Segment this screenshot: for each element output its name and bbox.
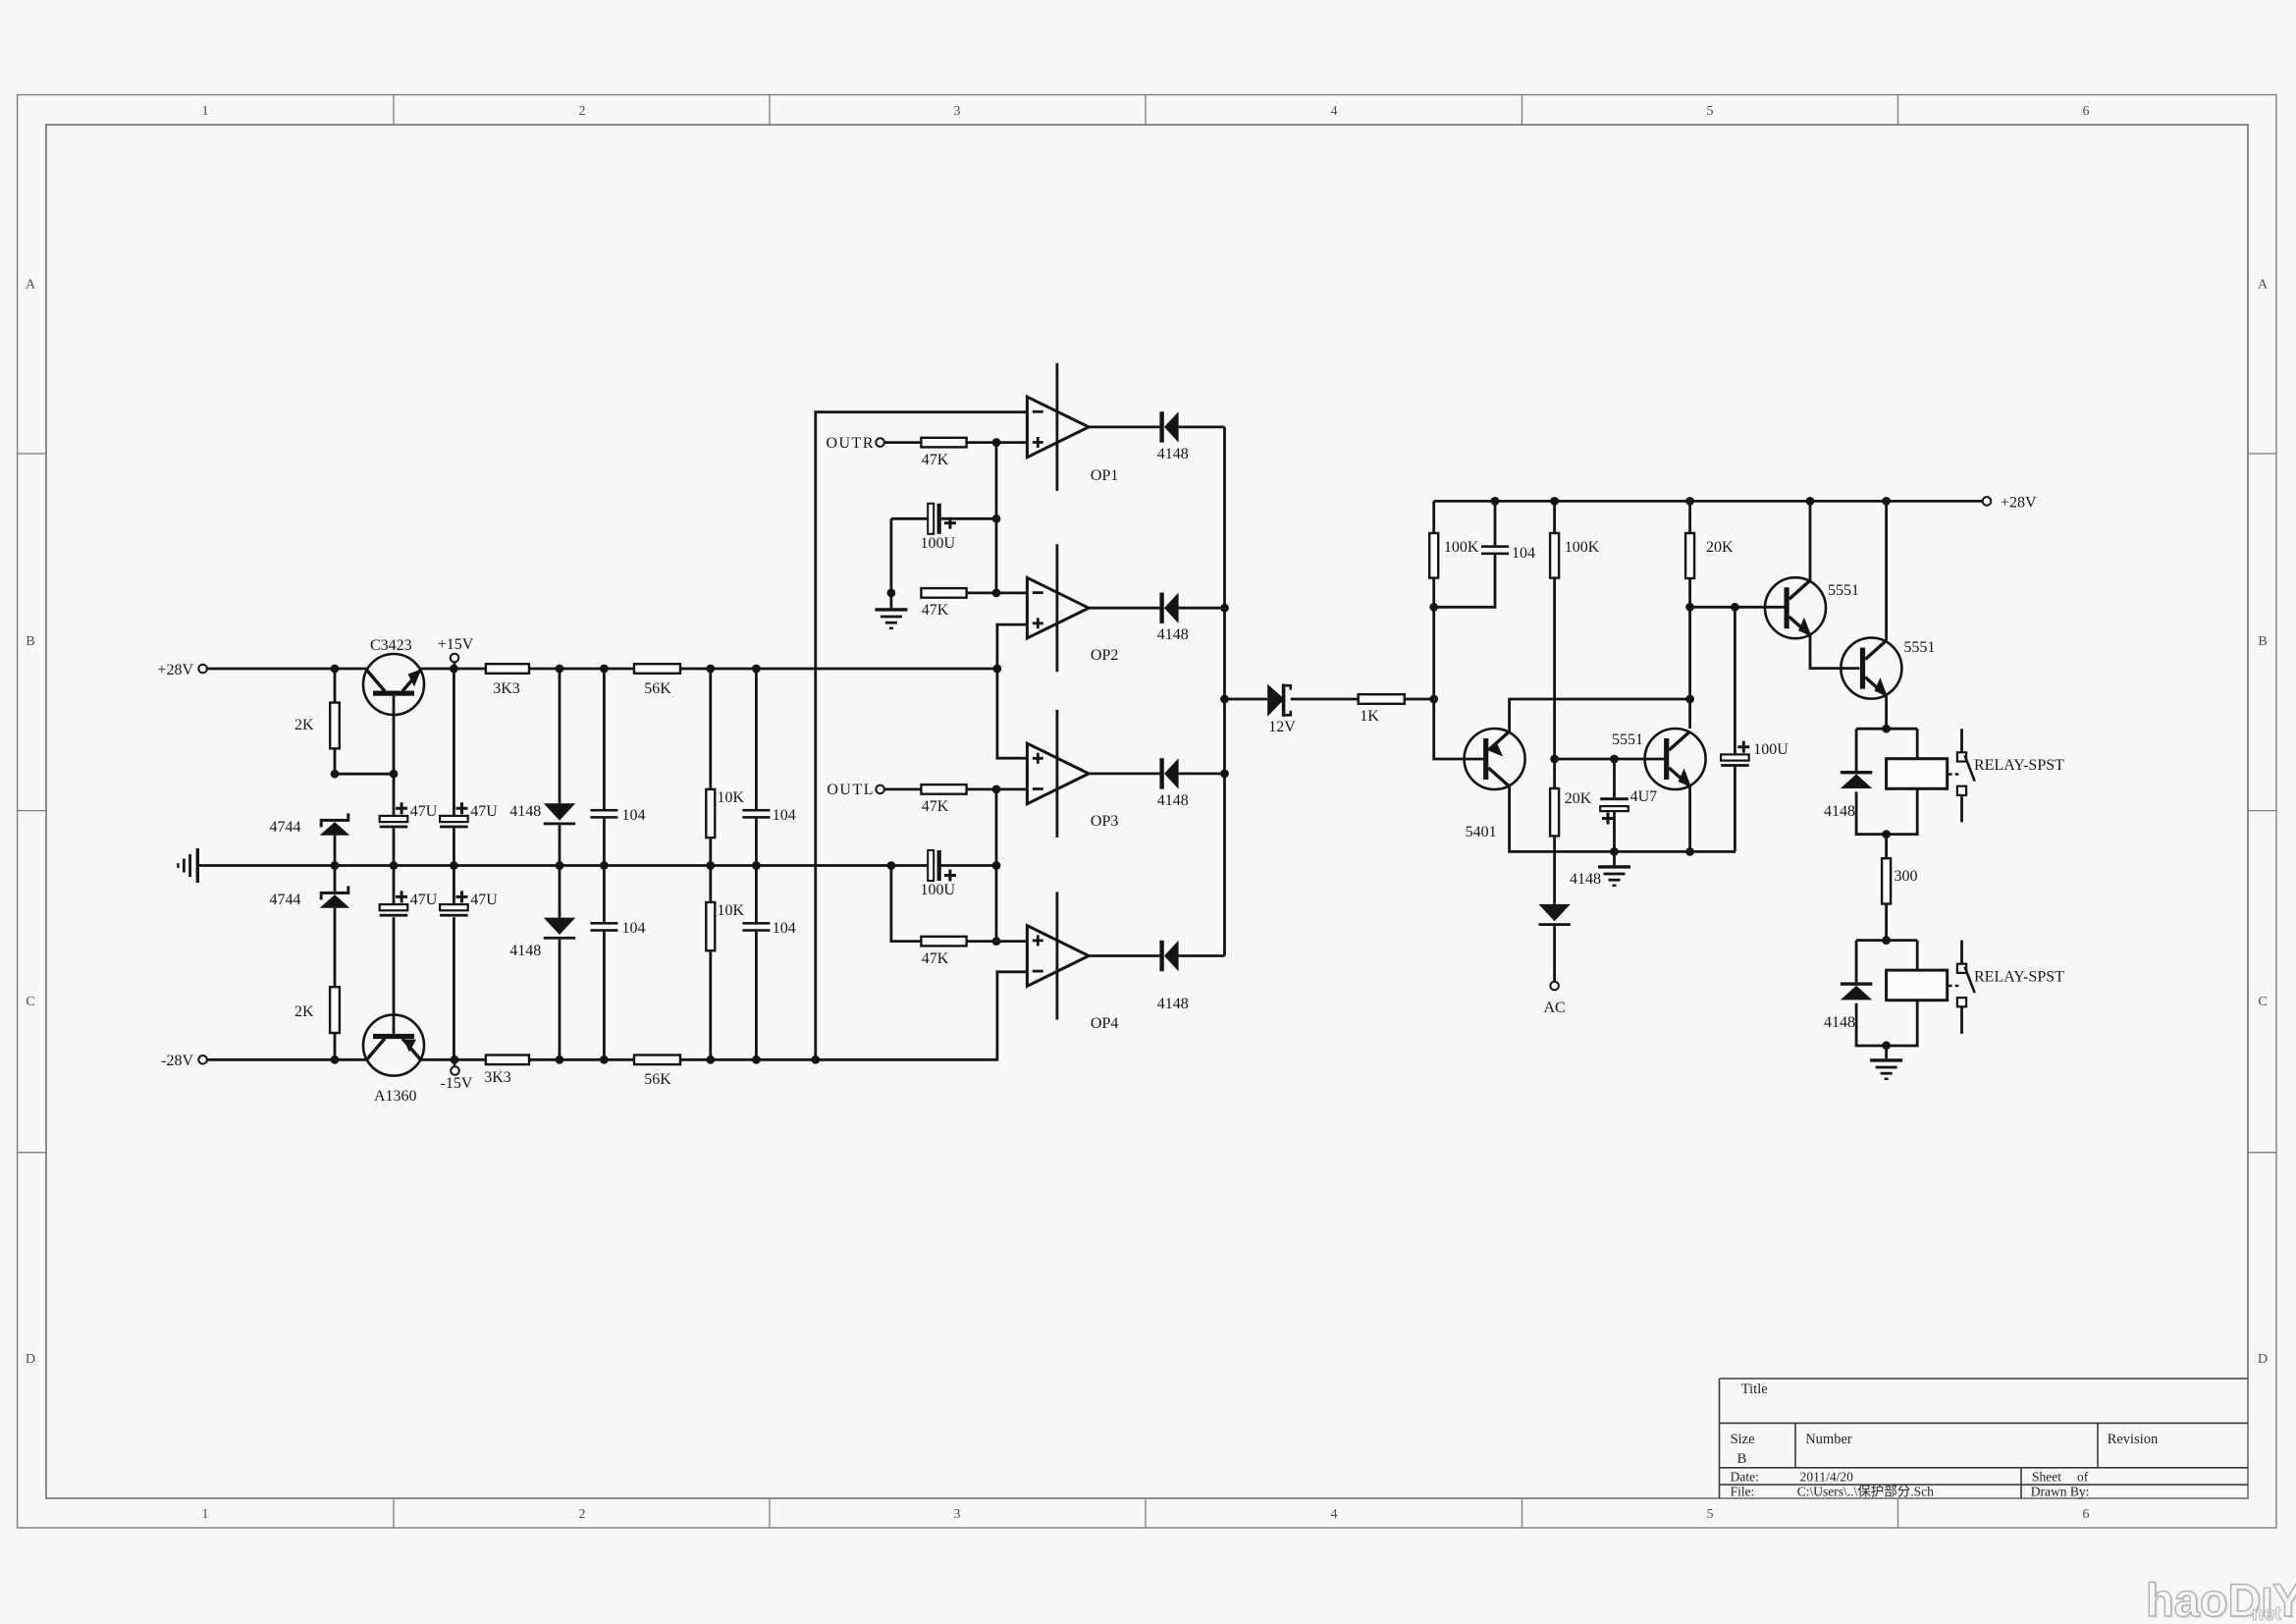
junction 4148 lower / negative rail xyxy=(556,1056,564,1064)
wire 47K #4 to OP4+ xyxy=(967,940,1028,943)
resistor 100K #1 (delay) xyxy=(1429,533,1438,578)
plus sign 100U #7 xyxy=(1737,741,1749,753)
op-amp OP1 (triangle) xyxy=(1027,397,1089,458)
transistor 5551 #3 (NPN driver) xyxy=(1765,577,1826,638)
svg-text:4148: 4148 xyxy=(1824,803,1855,820)
capacitor 104 #5 (delay) xyxy=(1481,545,1509,555)
resistor 47K #1 (OUTR) xyxy=(921,438,966,448)
wire 5551 #2 emitter lead xyxy=(1885,696,1888,730)
diode 4148 clamp (upper) xyxy=(544,803,575,825)
svg-text:4148: 4148 xyxy=(1570,871,1601,888)
wire 5401 emitter lead xyxy=(1510,699,1690,731)
ground symbol (timing network) xyxy=(1598,865,1630,887)
svg-text:5: 5 xyxy=(1707,104,1714,119)
svg-text:D: D xyxy=(26,1352,35,1367)
terminal +15V xyxy=(451,654,459,663)
junction reference rail / 104 #1 xyxy=(600,665,609,674)
junction detect line / 100U #7 xyxy=(1731,603,1739,612)
svg-text:Drawn By:: Drawn By: xyxy=(2031,1485,2090,1499)
wire 100U #6 right lead xyxy=(941,864,997,867)
capacitor 104 #4 (lower right filter) xyxy=(742,922,770,932)
op-amp OP2 (triangle) xyxy=(1027,577,1089,638)
wire 10K upper bottom lead xyxy=(709,838,712,865)
diode 4148 OP2 output xyxy=(1159,593,1178,623)
resistor 100K #2 xyxy=(1550,533,1559,578)
wire 10K lower top lead xyxy=(709,866,712,903)
junction relay #2 bottom node xyxy=(1882,1041,1891,1050)
ground symbol (main left earth) xyxy=(177,848,199,883)
svg-text:OUTR: OUTR xyxy=(826,435,875,452)
svg-text:2: 2 xyxy=(579,1507,586,1522)
wire detect node to 5551 base line xyxy=(1690,606,1786,609)
junction OUTL sense node xyxy=(992,785,1001,794)
wire 2K lower bottom lead xyxy=(334,1033,337,1059)
diode 4148 AC detect xyxy=(1538,904,1570,926)
svg-text:47K: 47K xyxy=(922,602,949,619)
plus sign 47U #1 xyxy=(396,802,407,814)
op-amp OP1 supply pins line xyxy=(1056,363,1059,491)
wire 5401 collector lead xyxy=(1510,786,1735,851)
svg-text:47K: 47K xyxy=(922,452,949,468)
junction 10K upper / ground xyxy=(706,861,715,870)
wire OP2 diode to bus xyxy=(1179,607,1225,610)
svg-text:OP3: OP3 xyxy=(1091,813,1118,830)
junction 4148 clamp / ground xyxy=(556,861,564,870)
svg-text:100U: 100U xyxy=(921,882,956,898)
wire left bus (OP1- to OP4- / negative reference) xyxy=(816,412,1028,1060)
svg-text:3: 3 xyxy=(954,1507,961,1522)
wire OP1 output xyxy=(1089,425,1159,428)
svg-text:Number: Number xyxy=(1805,1432,1852,1447)
svg-text:10K: 10K xyxy=(718,902,745,919)
wire 20K #2 bottom lead xyxy=(1553,836,1556,904)
wire 20K #1 top lead xyxy=(1688,501,1691,533)
junction OUTR sense node xyxy=(992,438,1001,447)
svg-text:300: 300 xyxy=(1895,868,1918,885)
svg-text:56K: 56K xyxy=(644,680,671,697)
svg-text:4: 4 xyxy=(1331,104,1338,119)
svg-text:OP1: OP1 xyxy=(1091,467,1118,484)
wire 100K #1 bottom lead xyxy=(1432,578,1435,699)
svg-text:+28V: +28V xyxy=(157,662,193,678)
junction reference rail / 10K upper xyxy=(706,665,715,674)
diode 4148 clamp (lower) xyxy=(544,918,575,940)
svg-text:5551: 5551 xyxy=(1612,731,1643,748)
terminal +28V (left input) xyxy=(198,665,207,674)
junction OUTR node / 100U #5 xyxy=(992,514,1001,523)
svg-text:10K: 10K xyxy=(718,789,745,806)
wire ground to 47K #4 xyxy=(891,866,922,942)
junction 4744 string / ground xyxy=(331,861,340,870)
wire 100U #7 bottom lead xyxy=(1734,767,1736,852)
wire OP1 diode to bus xyxy=(1179,425,1225,428)
svg-text:20K: 20K xyxy=(1565,790,1592,807)
junction left bus / negative rail xyxy=(811,1056,820,1064)
wire 4744 lower anode to 2K lower xyxy=(334,908,337,988)
svg-text:47K: 47K xyxy=(922,798,949,815)
resistor 20K #2 xyxy=(1550,788,1559,836)
junction relay #1 top node xyxy=(1882,725,1891,733)
junction +28V rail / 104 #5 xyxy=(1491,497,1500,506)
svg-text:OP2: OP2 xyxy=(1091,647,1118,664)
relay RELAY-SPST #2 branch wires xyxy=(1856,939,1917,942)
svg-text:C3423: C3423 xyxy=(370,637,412,654)
resistor 300 xyxy=(1882,858,1891,903)
relay RELAY-SPST #2 coil branch wire upper xyxy=(1916,941,1919,971)
svg-text:5401: 5401 xyxy=(1466,824,1497,840)
wire 300 to relay #2 xyxy=(1885,904,1888,941)
wire 47U #3 top lead xyxy=(393,866,396,905)
capacitor 47U #1 (on +15V node) xyxy=(380,816,408,828)
svg-text:4148: 4148 xyxy=(1157,446,1189,462)
capacitor 47U #4 (-15V rail) xyxy=(440,904,468,917)
svg-text:104: 104 xyxy=(773,807,796,824)
junction comparator collector node xyxy=(1685,695,1694,704)
wire relay #2 ground stub xyxy=(1885,1046,1888,1058)
junction reference rail / 4148 upper xyxy=(556,665,564,674)
wire OUTL node vertical xyxy=(995,789,998,942)
wire 100U #7 top lead xyxy=(1734,607,1736,754)
junction OUTL node / 100U #6 xyxy=(992,861,1001,870)
junction +15V rail xyxy=(450,665,458,674)
svg-text:-28V: -28V xyxy=(161,1053,193,1069)
wire 47U #1 bottom lead xyxy=(393,828,396,865)
svg-text:4148: 4148 xyxy=(509,943,541,959)
relay RELAY-SPST #1 switch upper lead xyxy=(1960,729,1963,752)
svg-text:B: B xyxy=(1737,1451,1747,1467)
terminal OUTR xyxy=(876,438,884,447)
svg-text:Revision: Revision xyxy=(2108,1432,2159,1447)
junction top rail / 2K divider xyxy=(331,665,340,674)
transistor C3423 (NPN regulator, +15V) xyxy=(363,654,424,715)
svg-text:100K: 100K xyxy=(1444,539,1479,556)
wire OP4 output xyxy=(1089,954,1159,957)
junction 47K #2 left / ground stub xyxy=(887,589,896,598)
wire bus to 12V zener xyxy=(1225,698,1268,701)
wire 104 #3 bottom lead xyxy=(755,819,758,866)
svg-text:B: B xyxy=(2258,634,2267,649)
capacitor 100U #7 xyxy=(1721,754,1749,766)
svg-text:C: C xyxy=(2258,995,2267,1009)
svg-text:+28V: +28V xyxy=(2001,495,2037,512)
svg-text:100K: 100K xyxy=(1565,539,1600,556)
wire OP2 output xyxy=(1089,607,1159,610)
svg-text:104: 104 xyxy=(622,920,646,937)
svg-text:4148: 4148 xyxy=(1157,996,1189,1012)
wire 47K #3 to OP3- xyxy=(967,788,1028,791)
svg-text:+15V: +15V xyxy=(438,636,474,653)
wire OP3 output xyxy=(1089,773,1159,776)
svg-text:net: net xyxy=(2252,1603,2281,1624)
wire 104 #1 bottom lead xyxy=(603,819,606,866)
junction bus / OP2 xyxy=(1220,604,1229,613)
wire +28V rail (right) xyxy=(1434,500,1983,503)
wire 104 #3 top lead xyxy=(755,669,758,809)
diode 4148 OP3 output xyxy=(1159,758,1178,788)
junction bottom node / 4U7 xyxy=(1610,847,1619,856)
junction 20K #1 / detect line xyxy=(1685,603,1694,612)
wire 104 #2 bottom lead xyxy=(603,932,606,1060)
junction 47U #2 / ground rail xyxy=(450,861,458,870)
wire 5551 #2 collector lead xyxy=(1885,501,1888,640)
wire 4148 upper cathode lead xyxy=(559,825,561,865)
transistor 5401 (PNP) xyxy=(1465,729,1525,789)
svg-text:2: 2 xyxy=(579,104,586,119)
resistor 10K (upper) xyxy=(706,789,715,838)
capacitor 4U7 (timing) xyxy=(1600,797,1629,811)
terminal -15V xyxy=(451,1066,459,1075)
op-amp OP2 supply pins line xyxy=(1056,544,1059,672)
wire filtered reference rail (top, after 56K) xyxy=(680,668,997,671)
wire 47U #3 bottom lead / A1360 base xyxy=(393,917,396,1025)
wire +15V rail segment through regulator output xyxy=(421,668,486,671)
junction 47K #4 / OP4+ xyxy=(992,937,1001,946)
wire 4744 lower cathode lead xyxy=(334,866,337,892)
svg-text:5551: 5551 xyxy=(1828,582,1859,599)
svg-text:4148: 4148 xyxy=(1824,1014,1855,1031)
junction 100K #2 / 20K #2 / base line xyxy=(1550,755,1559,764)
diode 4148 of relay RELAY-SPST #2 (flyback) xyxy=(1841,982,1872,1000)
wire 2K upper bottom lead xyxy=(334,748,337,774)
wire 104 #1 top lead xyxy=(603,669,606,809)
wire 100K #1 top lead xyxy=(1432,501,1435,533)
wire 47U #2 bottom lead xyxy=(453,828,455,865)
plus sign 100U #6 xyxy=(944,870,956,882)
transistor 5551 #2 (NPN relay driver) xyxy=(1841,638,1901,699)
capacitor 104 #3 (upper right filter) xyxy=(742,809,770,819)
svg-text:AC: AC xyxy=(1543,1000,1565,1016)
junction base line / 4U7 top xyxy=(1610,755,1619,764)
svg-text:104: 104 xyxy=(622,807,646,824)
wire 100U #5 right lead xyxy=(941,517,997,520)
svg-text:100U: 100U xyxy=(921,535,956,552)
wire filtered reference rail (top, after 3K3) xyxy=(529,668,634,671)
junction relay #1 bottom node xyxy=(1882,830,1891,839)
resistor 10K (lower) xyxy=(706,902,715,950)
relay RELAY-SPST #2 switch lower lead xyxy=(1960,1007,1963,1034)
wire comparator collector node vertical xyxy=(1688,699,1691,729)
wire relay #1 to 300 xyxy=(1885,835,1888,859)
svg-text:OUTL: OUTL xyxy=(827,782,875,798)
wire -28V input rail (left) xyxy=(207,1058,367,1061)
zener diode 12V xyxy=(1267,684,1291,717)
resistor 56K (upper) xyxy=(634,664,680,674)
wire 20K #1 bottom lead xyxy=(1688,578,1691,699)
svg-text:RELAY-SPST: RELAY-SPST xyxy=(1974,969,2064,986)
svg-text:2K: 2K xyxy=(294,717,314,733)
terminal OUTL xyxy=(876,785,884,794)
terminal -28V (left input) xyxy=(198,1056,207,1064)
wire 100K #2 bottom lead xyxy=(1553,578,1556,759)
svg-text:RELAY-SPST: RELAY-SPST xyxy=(1974,757,2064,774)
wire 4U7 top lead xyxy=(1613,759,1616,797)
resistor 3K3 (lower) xyxy=(486,1056,529,1065)
zener diode 4744 (lower) xyxy=(320,886,350,907)
wire OUTR to 47K xyxy=(884,441,922,444)
title block texts xyxy=(1731,1381,2159,1499)
wire 104 #4 bottom lead xyxy=(755,932,758,1060)
svg-text:3K3: 3K3 xyxy=(493,680,520,697)
transistor 5551 #1 (NPN) xyxy=(1645,729,1706,789)
svg-text:47K: 47K xyxy=(922,950,949,967)
junction C3423 base node xyxy=(390,770,399,779)
junction reference rail / 104 #3 xyxy=(752,665,761,674)
svg-text:1: 1 xyxy=(202,1507,209,1522)
op-amp OP3 supply pins line xyxy=(1056,710,1059,838)
relay RELAY-SPST #2 switch upper contact xyxy=(1957,964,1966,973)
svg-text:100U: 100U xyxy=(1753,741,1789,758)
junction -15V rail xyxy=(451,1056,459,1064)
svg-text:2011/4/20: 2011/4/20 xyxy=(1800,1470,1854,1485)
relay RELAY-SPST #1 diode branch wire lower xyxy=(1856,791,1887,834)
wire negative reference rail (after 3K3) xyxy=(529,1058,634,1061)
wire OP2+ to reference xyxy=(997,624,1028,758)
wire OP4 diode to bus xyxy=(1179,954,1225,957)
ground symbol (op-amp reference) xyxy=(875,608,907,629)
resistor 20K #1 xyxy=(1685,533,1694,578)
wire 47U #4 top lead xyxy=(453,866,455,905)
svg-text:104: 104 xyxy=(773,920,796,937)
wire 104 #5 top lead xyxy=(1494,501,1497,545)
resistor 47K #4 (to ground) xyxy=(921,937,966,947)
svg-text:56K: 56K xyxy=(644,1071,671,1088)
svg-text:File:: File: xyxy=(1731,1485,1755,1499)
capacitor 100U #6 (OUTL filter) xyxy=(928,850,941,881)
junction +28V rail / 20K #1 xyxy=(1685,497,1694,506)
svg-text:47U: 47U xyxy=(410,803,438,820)
relay RELAY-SPST #1 switch upper contact xyxy=(1957,752,1966,761)
capacitor 100U #5 (OUTR filter) xyxy=(928,504,941,534)
resistor 2K (upper) xyxy=(330,703,340,749)
watermark haoDIY.net xyxy=(2146,1574,2296,1624)
svg-text:3K3: 3K3 xyxy=(484,1069,511,1086)
svg-text:OP4: OP4 xyxy=(1091,1015,1118,1032)
plus sign 47U #3 xyxy=(396,891,407,902)
relay RELAY-SPST #2 coil branch wire lower xyxy=(1887,1001,1918,1046)
junction bus / 12V zener row xyxy=(1220,695,1229,704)
wire 1K to detect node xyxy=(1405,698,1434,701)
relay RELAY-SPST #1 switch lower contact xyxy=(1957,786,1966,795)
capacitor 104 #2 (lower filter) xyxy=(590,922,617,932)
wire 5551 #3 emitter to 5551 #2 base xyxy=(1810,635,1859,668)
svg-text:6: 6 xyxy=(2083,1507,2090,1522)
wire ground rail xyxy=(199,864,929,867)
wire 100U #5 left lead xyxy=(891,517,929,520)
terminal AC xyxy=(1550,982,1559,991)
terminal +28V (right) xyxy=(1983,497,1992,506)
svg-text:4148: 4148 xyxy=(1157,626,1189,643)
diode 4148 OP1 output xyxy=(1159,411,1178,442)
svg-text:4U7: 4U7 xyxy=(1630,788,1658,805)
capacitor 47U #3 (on -15V node) xyxy=(380,904,408,917)
relay RELAY-SPST #2 coil box xyxy=(1887,970,1948,1001)
junction 47K #2 / OP1+ chain xyxy=(992,589,1001,598)
relay RELAY-SPST #1 actuation dashed link xyxy=(1949,773,1959,775)
wire -15V rail segment xyxy=(421,1058,486,1061)
relay RELAY-SPST #1 switch lower lead xyxy=(1960,795,1963,822)
junction 104 #2 / negative rail xyxy=(600,1056,609,1064)
svg-text:1: 1 xyxy=(202,104,209,119)
wire 104 #2 top lead xyxy=(603,866,606,923)
wire 5551 #1 emitter lead xyxy=(1688,786,1691,851)
svg-text:4744: 4744 xyxy=(270,892,301,908)
wire detect node to 5401 base xyxy=(1434,699,1483,759)
svg-text:of: of xyxy=(2077,1470,2089,1485)
wire negative reference rail (after 56K, to OP4 inverting loop) xyxy=(680,972,1027,1060)
svg-text:104: 104 xyxy=(1512,545,1535,562)
capacitor 104 #1 (upper filter) xyxy=(590,809,617,819)
svg-text:47U: 47U xyxy=(470,803,498,820)
svg-text:4744: 4744 xyxy=(270,819,301,836)
svg-text:3: 3 xyxy=(954,104,961,119)
resistor 2K (lower) xyxy=(330,987,340,1033)
junction 10K lower / negative rail xyxy=(706,1056,715,1064)
zener diode 4744 (upper) xyxy=(320,813,350,835)
junction 47U #1 / ground rail xyxy=(390,861,399,870)
svg-text:C:\Users\..\保护部分.Sch: C:\Users\..\保护部分.Sch xyxy=(1797,1485,1934,1499)
wire -15V terminal lead xyxy=(454,1059,456,1066)
svg-text:2K: 2K xyxy=(294,1003,314,1020)
wire 104 #4 top lead xyxy=(755,866,758,923)
junction bus / OP3 xyxy=(1220,770,1229,779)
wire 4744 upper anode lead xyxy=(334,836,337,866)
plus sign 100U #5 xyxy=(944,517,956,529)
junction 104 #3 / ground xyxy=(752,861,761,870)
relay RELAY-SPST #2 diode branch wire upper xyxy=(1855,941,1858,983)
wire 10K lower bottom lead xyxy=(709,950,712,1059)
svg-text:Date:: Date: xyxy=(1731,1470,1759,1485)
wire 4148 lower cathode lead xyxy=(559,940,561,1060)
junction bottom node / 5551 #1 emitter xyxy=(1685,847,1694,856)
wire 100U #5 ground branch xyxy=(890,518,893,608)
relay RELAY-SPST #2 diode branch wire lower xyxy=(1856,1003,1887,1046)
wire OUTR node vertical xyxy=(995,443,998,593)
svg-text:5551: 5551 xyxy=(1903,639,1935,656)
wire base link C3423 xyxy=(335,773,394,776)
svg-text:4148: 4148 xyxy=(509,803,541,820)
wire 5551 #3 collector lead xyxy=(1809,501,1812,580)
svg-text:C: C xyxy=(26,995,34,1009)
relay RELAY-SPST #2 switch lower contact xyxy=(1957,998,1966,1006)
plus sign 47U #2 xyxy=(456,802,468,814)
svg-text:20K: 20K xyxy=(1706,539,1734,556)
relay RELAY-SPST #2 switch arm xyxy=(1965,967,1975,994)
wire 4U7 bottom lead xyxy=(1613,811,1616,851)
wire 4U7 ground stub xyxy=(1613,851,1616,865)
wire 47K #2 to OP2- xyxy=(967,592,1028,595)
wire 104 #5 bottom lead xyxy=(1434,555,1495,607)
op-amp OP4 supply pins line xyxy=(1056,893,1059,1020)
junction +28V rail / 100K #2 xyxy=(1550,497,1559,506)
op-amp OP3 (triangle) xyxy=(1027,743,1089,804)
svg-text:A1360: A1360 xyxy=(374,1088,417,1105)
wire OUTL to 47K xyxy=(884,788,922,791)
wire zener to 1K xyxy=(1291,698,1359,701)
svg-text:4: 4 xyxy=(1331,1507,1338,1522)
svg-text:12V: 12V xyxy=(1268,719,1296,735)
wire +28V input rail (left) xyxy=(207,668,367,671)
svg-text:5: 5 xyxy=(1707,1507,1714,1522)
relay RELAY-SPST #1 switch arm xyxy=(1965,755,1975,782)
resistor 3K3 (upper) xyxy=(486,664,529,674)
wire +15V terminal lead xyxy=(454,662,456,669)
relay RELAY-SPST #1 diode branch wire upper xyxy=(1855,729,1858,771)
wire 2K upper top lead xyxy=(334,669,337,703)
wire AC diode cathode lead xyxy=(1553,926,1556,982)
relay RELAY-SPST #1 coil branch wire lower xyxy=(1887,788,1918,834)
wire 4148 lower anode lead xyxy=(559,866,561,918)
relay RELAY-SPST #1 coil branch wire upper xyxy=(1916,729,1919,759)
